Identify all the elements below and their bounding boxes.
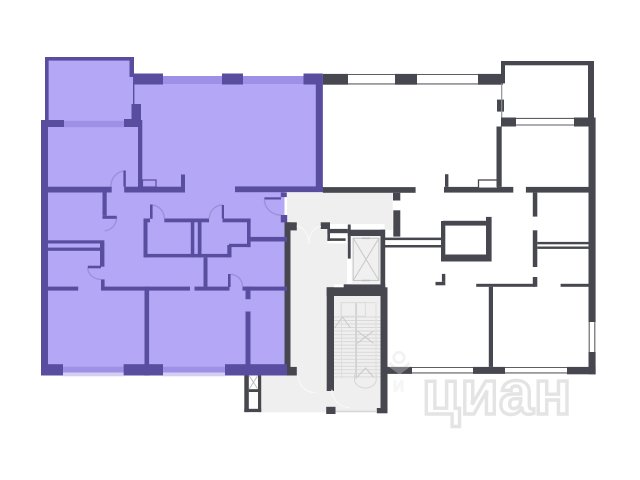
stairs bottom curve [355, 374, 377, 388]
stub above wall [445, 174, 448, 187]
bathroom box bottom [441, 255, 490, 262]
elevator car X cross [353, 238, 379, 280]
vent shaft left wall [244, 375, 249, 412]
room2 door arc [111, 171, 124, 187]
piece below bedroomA door [101, 279, 105, 288]
hall vert wall upper [103, 193, 107, 216]
bathroom door arc [153, 205, 165, 218]
block below room1 right [132, 104, 142, 120]
gray window thin lines [348, 75, 595, 373]
bottom mid wall seg1 [41, 287, 78, 291]
block right of corridor [393, 210, 400, 236]
top window 2 [417, 75, 478, 84]
room2 bottom wall segA [41, 187, 112, 193]
kitchen top wall [323, 187, 416, 193]
vent shaft top cell [249, 375, 258, 389]
bath bottom wall [144, 254, 228, 258]
wardrobe lines hall [385, 238, 442, 241]
room1 top wall [45, 57, 134, 61]
wc jog horizontal [229, 244, 251, 247]
living right wall [316, 76, 323, 192]
radiator box on wall [479, 180, 498, 188]
room2 bottom wall segB [124, 187, 185, 193]
stairs arrows [335, 317, 374, 377]
bedroomA door arc [88, 268, 101, 280]
room2 right wall [138, 120, 142, 187]
balcony right wall [588, 61, 594, 118]
kitchen divider upper [246, 287, 251, 300]
bedroom divider wall [145, 287, 150, 376]
balcony left stub [497, 100, 504, 112]
balcony bottom left block [501, 118, 516, 127]
stairwell left wall [327, 287, 334, 391]
bottom band dark seg2 [124, 364, 163, 375]
thin divider room1/living [133, 84, 134, 105]
hall top wall seg3 [223, 219, 251, 223]
closet door arc [105, 217, 117, 231]
room1 left wall [45, 57, 49, 120]
stairwell gray fill [334, 287, 381, 412]
hall top wall seg1 [144, 219, 150, 223]
top band seg1 [133, 74, 163, 85]
bottom window 2 [163, 367, 225, 373]
small L stub [436, 282, 446, 285]
wc door arc [209, 205, 223, 218]
elevator shaft interior [352, 236, 381, 284]
gray corner at purple SE [287, 367, 297, 376]
wc right wall [247, 219, 251, 248]
stairs treads [334, 317, 381, 377]
right outer wall lower [589, 352, 596, 374]
bottom wall seg3 [567, 367, 596, 374]
wardrobe line 2 [48, 248, 100, 251]
corridor gray sliver right of elevator top [384, 224, 392, 230]
bathroom notch [486, 217, 492, 222]
balcony left wall [501, 61, 505, 83]
stairs flight edges [342, 303, 377, 379]
kitchen door leaf [228, 274, 231, 287]
kitchen top wall [251, 237, 288, 242]
bath door leaf [150, 205, 153, 219]
bottom band dark seg1 [41, 364, 63, 375]
firedoor arc left [297, 227, 309, 244]
right wall window [589, 322, 595, 352]
bottom window 1 [63, 367, 124, 373]
stairwell top wall [327, 287, 381, 296]
elevator door ticks [362, 238, 370, 280]
elevator bottom wall [344, 284, 385, 290]
stairwell right wall [381, 287, 388, 412]
closet door leaf [103, 216, 117, 219]
top wall seg 1 [323, 74, 348, 85]
vent shaft divider [249, 389, 258, 392]
watermark chevron over wall [389, 367, 410, 375]
wardrobe lines bedroom [537, 242, 588, 244]
room2 door leaf [123, 171, 125, 187]
bottom wall seg1 [384, 367, 412, 374]
stairs mid divider [355, 303, 357, 379]
vertical wall bottom rooms [489, 287, 493, 367]
room1 bottom window [64, 121, 124, 127]
corridor gray fill firedoor row [287, 224, 327, 243]
living bottom wall [235, 186, 323, 192]
interior wall seg b [561, 284, 589, 287]
entry door arc [264, 200, 280, 216]
shaft box top wall [327, 229, 347, 233]
stub below kitchen wall [393, 193, 400, 201]
step block [124, 119, 141, 127]
gray strip under purple flat [261, 376, 287, 413]
balcony top wall [501, 61, 592, 65]
right apt entry arc [298, 375, 316, 393]
room A left wall [497, 127, 502, 187]
shaft box bottom wall [327, 238, 345, 241]
elevator car [353, 238, 379, 280]
wardrobe line 1 [48, 240, 100, 243]
mid vertical wall lower [533, 230, 538, 267]
mid vertical wall upper [533, 193, 538, 217]
vent shaft bottom [244, 409, 261, 412]
entry stub bottom [281, 215, 287, 222]
bottom mid wall seg2 [101, 287, 190, 291]
bottom mid wall seg4 [243, 287, 288, 291]
top wall seg 3 [478, 74, 503, 85]
elevator left wall [348, 225, 351, 259]
white slot above elevator [330, 225, 384, 230]
double wall 2 [198, 219, 202, 258]
stair door arc [332, 390, 350, 408]
firedoor wall right [321, 222, 330, 229]
wall right of hall seg1 [444, 187, 513, 193]
interior wall seg a [476, 284, 535, 287]
stair lobby block [326, 407, 335, 414]
top window 1 [348, 75, 395, 84]
firedoor arc right [309, 227, 321, 244]
vent shaft X cross [249, 376, 257, 389]
watermark pin icon [390, 352, 410, 372]
hall left wall [144, 219, 148, 258]
stairs top landing box [341, 303, 365, 317]
boundary wall purple/gray [285, 222, 291, 374]
watermark циан text [422, 359, 572, 428]
top window 1 [163, 76, 222, 84]
bottom band dark seg3 [225, 364, 287, 375]
bottom window 1 [412, 368, 473, 373]
firedoor wall left [285, 222, 297, 230]
elevator right wall [381, 230, 386, 291]
wc jog vertical [227, 245, 231, 257]
wc door leaf [222, 205, 224, 219]
kitchen divider lower [246, 312, 251, 367]
kitchen door arc [231, 274, 243, 286]
bottom window 2 [505, 368, 567, 373]
vent shaft bottom cell [249, 392, 258, 409]
corridor gray fill top [287, 193, 393, 224]
bedroomA door leaf [88, 266, 101, 269]
stair lobby thin line [336, 411, 377, 413]
white door arcs in corridor [297, 227, 350, 408]
balcony left thin line [501, 83, 503, 117]
top window 2 sill gap [243, 73, 304, 77]
elevator left bottom piece [344, 284, 352, 290]
top band seg2 [222, 74, 243, 85]
bathroom box top [443, 221, 486, 226]
elevator top wall [348, 230, 385, 236]
bathroom box left [441, 221, 445, 262]
top window 1 sill gap [163, 73, 222, 77]
corridor gray fill elevator pocket [287, 243, 347, 284]
wardrobe right wall [100, 240, 104, 266]
vent shaft right wall [258, 375, 261, 412]
stub at living opening [181, 175, 185, 187]
wall below bath [204, 257, 208, 286]
top band seg3 [304, 74, 323, 85]
bottom mid wall seg3 [195, 287, 230, 291]
room1 window row left block [41, 120, 64, 127]
double wall 1 [191, 219, 195, 258]
hall top wall seg2 [164, 219, 209, 223]
small white shaft box [330, 233, 343, 238]
purple windows [63, 73, 304, 377]
bathroom box right [486, 221, 492, 262]
left outer wall [41, 120, 48, 376]
shaft box left wall [327, 229, 330, 241]
purple door arcs [88, 171, 281, 287]
entry stub top [281, 193, 287, 198]
right outer wall upper [589, 118, 596, 323]
mid vertical stub [533, 277, 538, 287]
niche outline living room [143, 180, 157, 187]
bottom wall seg2 [473, 367, 505, 374]
purple walls [41, 57, 323, 376]
purple fill [41, 57, 323, 376]
wall right of hall seg2 [526, 187, 589, 193]
entry door leaf [264, 197, 281, 199]
top window 2 [243, 76, 304, 84]
stairwell right foot [377, 408, 388, 413]
top wall seg 2 [395, 74, 417, 85]
room1 right wall [130, 57, 135, 77]
balcony bottom right block [574, 118, 592, 127]
balcony bottom window [516, 118, 574, 125]
corridor gray fill column [287, 284, 334, 412]
